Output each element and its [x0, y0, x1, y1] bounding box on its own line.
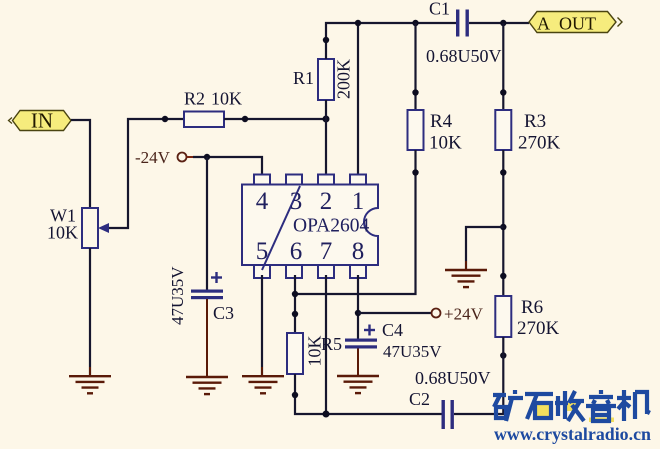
wire C3 bottom to ground — [206, 299, 208, 376]
wire -24V to pin 4 — [193, 157, 262, 175]
svg-text:C1: C1 — [429, 0, 450, 19]
wire to +24V port — [358, 312, 432, 314]
node -24V / C3 junction — [204, 154, 210, 160]
wire C4 bottom to ground — [357, 349, 359, 376]
svg-text:C3: C3 — [213, 303, 234, 323]
wire R4 top lead — [414, 23, 416, 110]
svg-text:2: 2 — [320, 188, 333, 215]
port IN flag — [9, 109, 72, 133]
watermark logo — [493, 390, 649, 421]
capacitor C4 — [345, 320, 442, 361]
pin 1 stub — [350, 175, 366, 185]
wire R1 top to output node — [326, 23, 456, 59]
ground under W1 — [69, 367, 111, 393]
svg-text:R6: R6 — [521, 297, 543, 318]
wire R2 left to W1 wiper — [107, 119, 184, 228]
resistor R4 — [408, 110, 463, 154]
char shou — [555, 391, 584, 421]
watermark yellow accents — [536, 403, 614, 422]
capacitor C1 — [426, 0, 502, 66]
resistor R3 — [495, 110, 560, 154]
svg-text:270K: 270K — [518, 133, 561, 154]
node R4 top — [412, 20, 418, 26]
char ji — [617, 390, 649, 421]
char yin — [586, 390, 616, 421]
wire R6 bottom to C2 right plate — [454, 337, 503, 414]
svg-text:4: 4 — [256, 188, 269, 215]
resistor R1 — [293, 59, 354, 100]
node R3/A OUT — [500, 20, 506, 26]
svg-text:R5: R5 — [321, 334, 342, 354]
svg-text:C2: C2 — [409, 389, 430, 409]
wire R3 bottom to R6 top — [502, 150, 504, 296]
wire R5 bottom to bottom rail — [295, 374, 442, 414]
capacitor C3 — [168, 266, 234, 325]
port A OUT flag — [529, 12, 622, 34]
svg-text:47U35V: 47U35V — [168, 266, 187, 325]
node below R3 — [500, 169, 506, 175]
port +24V — [432, 305, 484, 324]
svg-text:+24V: +24V — [444, 305, 484, 324]
op-amp diagonal slash — [262, 186, 300, 270]
svg-text:IN: IN — [31, 109, 53, 133]
wire ground branch — [466, 227, 503, 269]
node below R6 — [500, 352, 506, 358]
pin 2 stub — [318, 175, 334, 185]
node below R5 — [292, 392, 298, 398]
node pin7 / bottom rail — [323, 411, 330, 418]
svg-text:3: 3 — [290, 188, 303, 215]
wire pin 1 to output node — [357, 23, 359, 175]
svg-text:6: 6 — [290, 238, 303, 265]
wire R2 right to R1 line — [224, 118, 326, 120]
ground under C4 — [337, 376, 379, 393]
wire C1 right to A OUT — [469, 22, 529, 24]
svg-text:7: 7 — [320, 238, 333, 265]
node ground branch — [500, 224, 506, 230]
pin 5 stub — [254, 265, 270, 278]
potentiometer W1 — [47, 206, 109, 249]
svg-text:R4: R4 — [430, 111, 453, 132]
resistor R5 — [287, 333, 342, 374]
wire R3 top lead — [502, 23, 504, 110]
resistor R6 — [495, 296, 559, 339]
svg-text:5: 5 — [256, 238, 269, 265]
svg-text:OPA2604: OPA2604 — [293, 216, 369, 237]
wire pin 6 to R5 top — [294, 275, 296, 333]
node pin6 / R4 feedback — [292, 291, 298, 297]
pin 4 stub — [254, 175, 270, 185]
pin 6 stub — [286, 265, 302, 278]
svg-text:A OUT: A OUT — [537, 14, 596, 34]
ground under C3 — [186, 377, 228, 394]
pin 8 stub — [350, 265, 366, 278]
svg-text:47U35V: 47U35V — [383, 342, 442, 361]
svg-text:200K: 200K — [334, 59, 354, 99]
svg-text:10K: 10K — [47, 223, 78, 243]
svg-text:0.68U50V: 0.68U50V — [426, 46, 502, 66]
ground under pin 5 — [242, 367, 284, 393]
svg-text:270K: 270K — [517, 318, 560, 339]
pin 7 stub — [318, 265, 334, 278]
node on R1 top lead — [323, 37, 329, 43]
wire IN to W1 top — [71, 120, 90, 208]
svg-text:C4: C4 — [382, 320, 403, 340]
wire junction to C3 top plate — [206, 157, 208, 290]
wire W1 bottom to ground — [89, 248, 91, 375]
char kuang — [493, 390, 523, 421]
char shi — [525, 394, 553, 419]
node +24V branch — [355, 310, 361, 316]
node on R2 left wire — [162, 116, 168, 122]
wire R1 bottom to pin 2 — [325, 100, 327, 175]
wire pin 5 to ground — [261, 275, 263, 375]
svg-text:-24V: -24V — [135, 148, 171, 167]
svg-text:R2 10K: R2 10K — [184, 89, 242, 109]
node R2/R1/pin2 junction — [323, 116, 330, 123]
ground mid right — [445, 261, 487, 287]
capacitor C2 — [409, 368, 491, 429]
svg-text:www.crystalradio.cn: www.crystalradio.cn — [494, 424, 651, 444]
svg-text:0.68U50V: 0.68U50V — [415, 368, 491, 388]
node below R4 — [412, 169, 418, 175]
node above R6 — [500, 273, 506, 279]
node right of R2 — [242, 116, 248, 122]
wire R4 bottom to pin 6 node — [295, 150, 416, 294]
port -24V — [135, 148, 196, 167]
resistor R2 — [184, 89, 242, 128]
svg-text:R1: R1 — [293, 68, 314, 88]
pin 3 stub — [286, 175, 302, 185]
node pin1/top wire — [355, 20, 361, 26]
svg-text:R3: R3 — [524, 111, 546, 132]
svg-text:1: 1 — [352, 188, 365, 215]
node above R4 — [412, 89, 418, 95]
wire pin 7 to bottom rail — [325, 275, 327, 414]
wire pin 8 to C4 — [357, 275, 359, 339]
op-amp U1 OPA2604 body — [242, 185, 378, 266]
svg-text:8: 8 — [352, 238, 365, 265]
svg-text:10K: 10K — [429, 133, 462, 154]
node above R3 — [500, 89, 506, 95]
node above R5 — [292, 311, 298, 317]
